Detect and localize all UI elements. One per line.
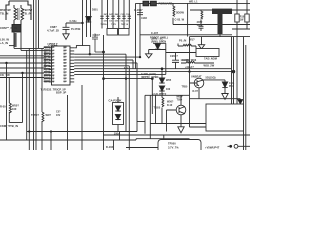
wire y77.5 <box>0 77 44 79</box>
rail x165.8 <box>165 43 167 74</box>
svg-text:TP500: TP500 <box>168 141 176 145</box>
wire y52.5 <box>166 52 196 54</box>
transformer T501 outline <box>6 1 31 20</box>
terminal dot <box>229 145 232 148</box>
svg-text:D-102: D-102 <box>106 145 114 149</box>
resistor R107 zigzag horizontal <box>178 44 194 47</box>
svg-text:TR50: TR50 <box>182 85 189 88</box>
svg-text:T50P_/N: T50P_/N <box>121 24 129 26</box>
rail x82 <box>81 85 83 150</box>
IC left net label smudges <box>44 46 51 82</box>
svg-text:11: 11 <box>52 79 54 81</box>
svg-text:CA-P203K: CA-P203K <box>109 99 122 103</box>
IC output wire y57.1 <box>74 56 140 58</box>
svg-text:T5/P2A: T5/P2A <box>101 23 108 26</box>
top line y3.4 <box>136 2 251 4</box>
diode D501 <box>86 17 91 23</box>
rail x155.5 <box>155 95 157 123</box>
svg-text:WD_L1: WD_L1 <box>189 1 198 4</box>
node dot (82.5,23) <box>81 22 83 24</box>
node dot (103.5,52) <box>102 51 105 54</box>
transistor Q502 <box>176 105 186 115</box>
wire y63 <box>0 62 44 64</box>
svg-text:CKM**_R_/N: CKM**_R_/N <box>0 26 17 30</box>
svg-text:L1003_W03: L1003_W03 <box>182 58 197 62</box>
ground arrow GA2 <box>178 127 184 133</box>
transformer T501 primary winding <box>14 5 17 25</box>
svg-text:100: 100 <box>166 88 171 91</box>
connector box CN2b <box>119 29 130 36</box>
node dot (29.3,131.5) <box>28 130 30 132</box>
wire vertical x6.5 <box>6 63 8 140</box>
svg-text:20: 20 <box>64 60 66 62</box>
svg-text:P12_C: P12_C <box>44 69 51 71</box>
rail x189.5 <box>189 37 191 127</box>
svg-text:(W)P5C_OPEN: (W)P5C_OPEN <box>141 76 159 79</box>
svg-text:+CAL/PUT#: +CAL/PUT# <box>152 92 167 96</box>
svg-text:13: 13 <box>64 82 66 84</box>
wire y78.6 PSC_OPEN <box>104 78 153 80</box>
diode D503 <box>155 44 160 49</box>
svg-text:7: 7 <box>52 66 53 68</box>
svg-text:T05#: T05# <box>177 99 183 102</box>
rail x150.3 <box>149 95 151 138</box>
resistor R108 zigzag horizontal <box>181 61 214 63</box>
resistor R507 zigzag <box>9 103 11 123</box>
rail x67.5 <box>67 95 69 150</box>
rail x166.5 <box>166 110 168 132</box>
svg-text:12: 12 <box>52 82 54 84</box>
transformer T501 secondary winding <box>21 5 24 25</box>
IC output wire y62.9 <box>74 63 137 132</box>
svg-text:C-047: C-047 <box>93 33 101 37</box>
IC output wire y68.7 (long) <box>74 68 231 70</box>
terminal circle <box>234 144 238 148</box>
diode D501 rails <box>87 0 91 37</box>
connector box CN2a <box>107 29 118 36</box>
svg-text:PL470E: PL470E <box>71 27 81 31</box>
wire U bottom y122.5 <box>9 122 22 124</box>
wire y131.5 <box>27 131 137 133</box>
svg-text:D-0?: D-0? <box>193 90 199 93</box>
svg-text:17: 17 <box>64 69 66 71</box>
bus wire vertical A <box>33 0 35 150</box>
svg-text:TR50?: TR50? <box>31 113 39 117</box>
svg-text:P5_/N: P5_/N <box>179 39 186 43</box>
svg-text:AVD_5: AVD_5 <box>44 75 51 78</box>
wire y147.5 <box>126 147 158 149</box>
svg-text:CK_IN: CK_IN <box>44 57 51 59</box>
label leader <box>9 45 14 47</box>
svg-text:TB_/N: TB_/N <box>23 12 31 16</box>
svg-text:D473: D473 <box>109 13 113 16</box>
wire y24.5 <box>173 24 250 26</box>
wire y57.9 <box>0 57 44 59</box>
svg-text:RST_N: RST_N <box>44 60 51 62</box>
svg-text:C-107: C-107 <box>151 31 159 35</box>
arrow down sym1 <box>198 37 204 49</box>
array component ticks <box>100 16 131 18</box>
svg-text:RXD_0: RXD_0 <box>44 51 52 53</box>
node dot (233.5,71.6) <box>232 70 235 73</box>
wire vertical x22.5 <box>22 73 24 123</box>
svg-text:D-10: D-10 <box>167 104 173 107</box>
zener pair D510 <box>159 78 164 83</box>
wire y127 <box>190 126 207 128</box>
fuse F1 (dark) <box>143 1 149 6</box>
inductor lead <box>219 34 221 37</box>
capacitor C106 <box>199 26 204 31</box>
svg-text:5D(15Ω): 5D(15Ω) <box>206 76 216 80</box>
wire T501 lead A <box>14 32 44 49</box>
IC inside pin smudges <box>52 47 67 83</box>
top right line y10 <box>190 9 250 11</box>
svg-text:W05: W05 <box>166 79 172 82</box>
terminal line <box>228 145 251 147</box>
wire y121.5 <box>137 121 145 123</box>
svg-text:3: 3 <box>52 54 53 56</box>
wire y140 <box>0 139 136 140</box>
rail x237 <box>236 0 238 104</box>
rail x82.5 <box>82 0 84 46</box>
ground for C531 <box>63 34 69 40</box>
svg-text:W1?: W1? <box>189 38 195 42</box>
rail x152.3 <box>151 79 153 114</box>
svg-text:10V: 10V <box>56 114 61 117</box>
wire IC top bridge <box>74 46 90 55</box>
wire y138.7 <box>136 138 190 140</box>
wire y29 <box>232 28 250 30</box>
svg-text:18: 18 <box>64 66 66 68</box>
svg-text:19: 19 <box>64 63 66 65</box>
IC U5012 right pins <box>70 48 74 82</box>
transistor Q501 <box>194 78 204 88</box>
wire y68 <box>0 67 44 69</box>
bridge CA-P2026 box <box>113 103 124 125</box>
capacitor C206 leads <box>175 53 177 69</box>
svg-text:1/4: 1/4 <box>121 20 124 23</box>
diode array wire x113 <box>112 0 114 29</box>
bridge diode a <box>115 106 120 111</box>
white box right <box>206 104 244 131</box>
svg-text:7A/5_NOM: 7A/5_NOM <box>204 57 217 61</box>
rail x42 <box>41 48 43 112</box>
svg-text:100: 100 <box>12 107 17 111</box>
svg-text:P5C_1: P5C_1 <box>44 48 51 50</box>
IC output wire y71.6 (long) <box>74 71 233 73</box>
svg-text:TXD_0: TXD_0 <box>44 54 51 56</box>
svg-text:C103: C103 <box>121 14 125 16</box>
svg-text:C206?: C206? <box>170 54 178 58</box>
rail x103.5 <box>103 35 105 150</box>
ground arrow GA1 <box>222 94 228 100</box>
rail x247 <box>246 0 248 29</box>
resistor box R512 <box>245 14 249 22</box>
rail x145 <box>144 95 146 134</box>
connector block CN501 (dark) <box>12 25 21 33</box>
bridge diode b <box>115 115 120 120</box>
inductor L501 bar (solid) <box>212 9 232 14</box>
wire y135 <box>104 134 251 136</box>
diode array wire x118.7 <box>118 0 120 29</box>
svg-text:R-50: R-50 <box>0 105 6 109</box>
wire vertical x26.7 <box>26 50 28 140</box>
svg-text:4.7uF_25: 4.7uF_25 <box>47 29 59 33</box>
svg-text:1/4: 1/4 <box>109 20 112 23</box>
bus wire vertical C <box>38 0 40 48</box>
svg-text:4: 4 <box>52 56 53 59</box>
svg-text:C-1047: C-1047 <box>134 8 143 12</box>
svg-text:FORWARD: FORWARD <box>159 2 173 6</box>
svg-text:+GBA?: +GBA? <box>185 65 194 69</box>
IC output wire y60 <box>74 60 133 69</box>
ground arrow GND1 <box>146 50 153 59</box>
rounded module box TP500 <box>158 140 201 154</box>
capacitor C047 <box>92 34 104 53</box>
node dot (162,68.7) <box>161 67 164 70</box>
svg-text:P13_D: P13_D <box>44 72 51 74</box>
svg-text:V55_0: V55_0 <box>44 82 51 84</box>
node dot (152.3,78.6) <box>151 77 154 80</box>
rail x163.8 <box>163 135 165 150</box>
node dot (51,131.5) <box>50 130 52 132</box>
node dot (126,78.6) <box>125 77 127 79</box>
svg-text:22: 22 <box>64 54 66 56</box>
IC output wire y74.4 <box>74 73 166 75</box>
svg-text:T_/P5: T_/P5 <box>111 24 116 26</box>
capacitor C1047 <box>137 13 143 21</box>
svg-text:U5012: U5012 <box>48 42 58 46</box>
arrow down sym2 <box>238 99 243 104</box>
bus wire vertical B <box>35 0 37 150</box>
rail x187.6 <box>187 3 189 36</box>
node dot (189.5,71.6) <box>188 70 190 72</box>
svg-text:4148: 4148 <box>141 16 147 20</box>
svg-text:T03/5: T03/5 <box>154 106 161 110</box>
diode array wire x124 <box>123 0 125 29</box>
resistor Rfw zigzag vertical <box>173 3 175 24</box>
IC U5012 left pins <box>49 48 52 82</box>
bridge leads <box>117 97 119 132</box>
svg-text:1: 1 <box>52 48 53 50</box>
diode array wire x102 <box>101 0 103 29</box>
svg-text:P11_B: P11_B <box>44 66 51 68</box>
wire y55.8 <box>0 55 44 57</box>
rail x51 <box>50 132 52 151</box>
svg-text:8: 8 <box>52 69 53 71</box>
relay box 7A/5 <box>196 49 219 57</box>
node dot (6.5,63) <box>5 62 7 64</box>
node dot (89.8,54.2) <box>89 53 91 55</box>
svg-text:15: 15 <box>64 76 66 78</box>
svg-text:W0?: W0? <box>46 113 52 117</box>
diode D504 <box>222 82 227 87</box>
svg-text:D501: D501 <box>92 9 98 12</box>
wire y123.5 <box>150 123 206 125</box>
svg-text:14: 14 <box>64 78 66 81</box>
capacitor C531 plates <box>63 27 70 29</box>
svg-text:+A_/N: +A_/N <box>0 41 8 45</box>
svg-text:W50?: W50? <box>12 104 19 108</box>
svg-text:9: 9 <box>52 72 53 74</box>
rail x119.5 <box>119 132 121 141</box>
wire T501 lead B <box>21 32 44 51</box>
wire vertical x29.3 <box>28 48 30 150</box>
svg-text:24: 24 <box>64 47 66 50</box>
svg-text:W03_2W: W03_2W <box>204 63 215 67</box>
svg-text:UNBEAT: UNBEAT <box>191 74 202 78</box>
wire vertical x9.3 with resistor R507 <box>8 78 10 104</box>
svg-text:3.7V_7%: 3.7V_7% <box>168 145 179 149</box>
svg-text:BOP_5P: BOP_5P <box>56 91 67 95</box>
wire y98.7 right <box>190 98 241 100</box>
wire y43.3 <box>153 42 166 45</box>
svg-text:D407: D407 <box>115 13 119 16</box>
node dot (103.5,78.6) <box>102 77 105 80</box>
svg-text:100n: 100n <box>114 132 120 136</box>
IC output wire y65.8 <box>74 66 129 150</box>
node dot (140,57.1) <box>139 56 141 58</box>
rail x45 <box>44 50 46 68</box>
svg-text:C-03_W: C-03_W <box>175 17 185 21</box>
resistor box R511 <box>235 14 239 22</box>
svg-text:2: 2 <box>52 51 53 53</box>
svg-text:5D/5W: 5D/5W <box>176 11 184 15</box>
svg-text:(R/W)_OPEN: (R/W)_OPEN <box>151 40 166 43</box>
fuse F2 (dark) <box>151 1 157 6</box>
resistor R106 zigzag vertical <box>201 10 203 26</box>
svg-text:21: 21 <box>64 57 66 59</box>
svg-text:P10_A: P10_A <box>44 62 51 65</box>
diode array wire x107.5 <box>107 0 109 29</box>
svg-text:C103: C103 <box>126 14 130 16</box>
wire y95.3 <box>145 94 190 96</box>
inductor L501 core (solid) <box>218 14 223 34</box>
right module border A <box>232 37 234 104</box>
rail x113.5 <box>113 140 115 150</box>
svg-text:TB_/N: TB_/N <box>0 12 8 16</box>
rail x140 <box>139 3 141 57</box>
wire R107 to box <box>194 46 196 49</box>
capacitor C206 plates <box>172 60 179 62</box>
IC output wire y54.2 <box>74 54 126 131</box>
capacitor C531 wire <box>66 23 83 27</box>
svg-text:10: 10 <box>52 76 54 78</box>
transformer core <box>18 8 20 20</box>
svg-text:23: 23 <box>64 51 66 53</box>
diode array labels top <box>101 13 131 26</box>
IC U5012 body <box>52 46 71 85</box>
svg-text:CKM_*#TB_/N: CKM_*#TB_/N <box>0 124 18 128</box>
wire y36.6 live <box>190 36 251 38</box>
svg-text:1/6W: 1/6W <box>197 23 204 27</box>
vertical label bar under CN501 <box>14 33 17 47</box>
svg-text:C-53x: C-53x <box>70 19 78 23</box>
svg-text:PL/2: PL/2 <box>229 85 235 88</box>
IC inside pin numbers left <box>52 48 54 84</box>
IC inside pin labels right <box>64 47 66 84</box>
resistor R50 zigzag vertical <box>42 112 44 150</box>
D510 leads <box>161 69 163 98</box>
wire y49.5 <box>149 49 166 51</box>
wire y34.8 <box>140 34 232 36</box>
svg-text:+V5WUP4T: +V5WUP4T <box>205 145 220 149</box>
rail x135.5 <box>135 3 137 68</box>
IC left net labels <box>44 48 52 84</box>
svg-text:6: 6 <box>52 63 53 65</box>
svg-text:AV5_5: AV5_5 <box>44 78 51 81</box>
wire y73 <box>0 72 44 74</box>
right module border B <box>244 37 246 150</box>
capacitor C531 lower lead <box>65 29 67 33</box>
svg-text:16: 16 <box>64 72 66 74</box>
svg-text:5: 5 <box>52 60 53 62</box>
diode D504 leads <box>224 80 226 93</box>
resistor R510 zigzag vertical <box>162 98 164 124</box>
node dot (22.5,73) <box>21 72 23 74</box>
svg-text:CK_5W: CK_5W <box>0 73 10 77</box>
diode array wire x129.3 <box>128 0 130 29</box>
svg-text:D472: D472 <box>104 13 108 16</box>
